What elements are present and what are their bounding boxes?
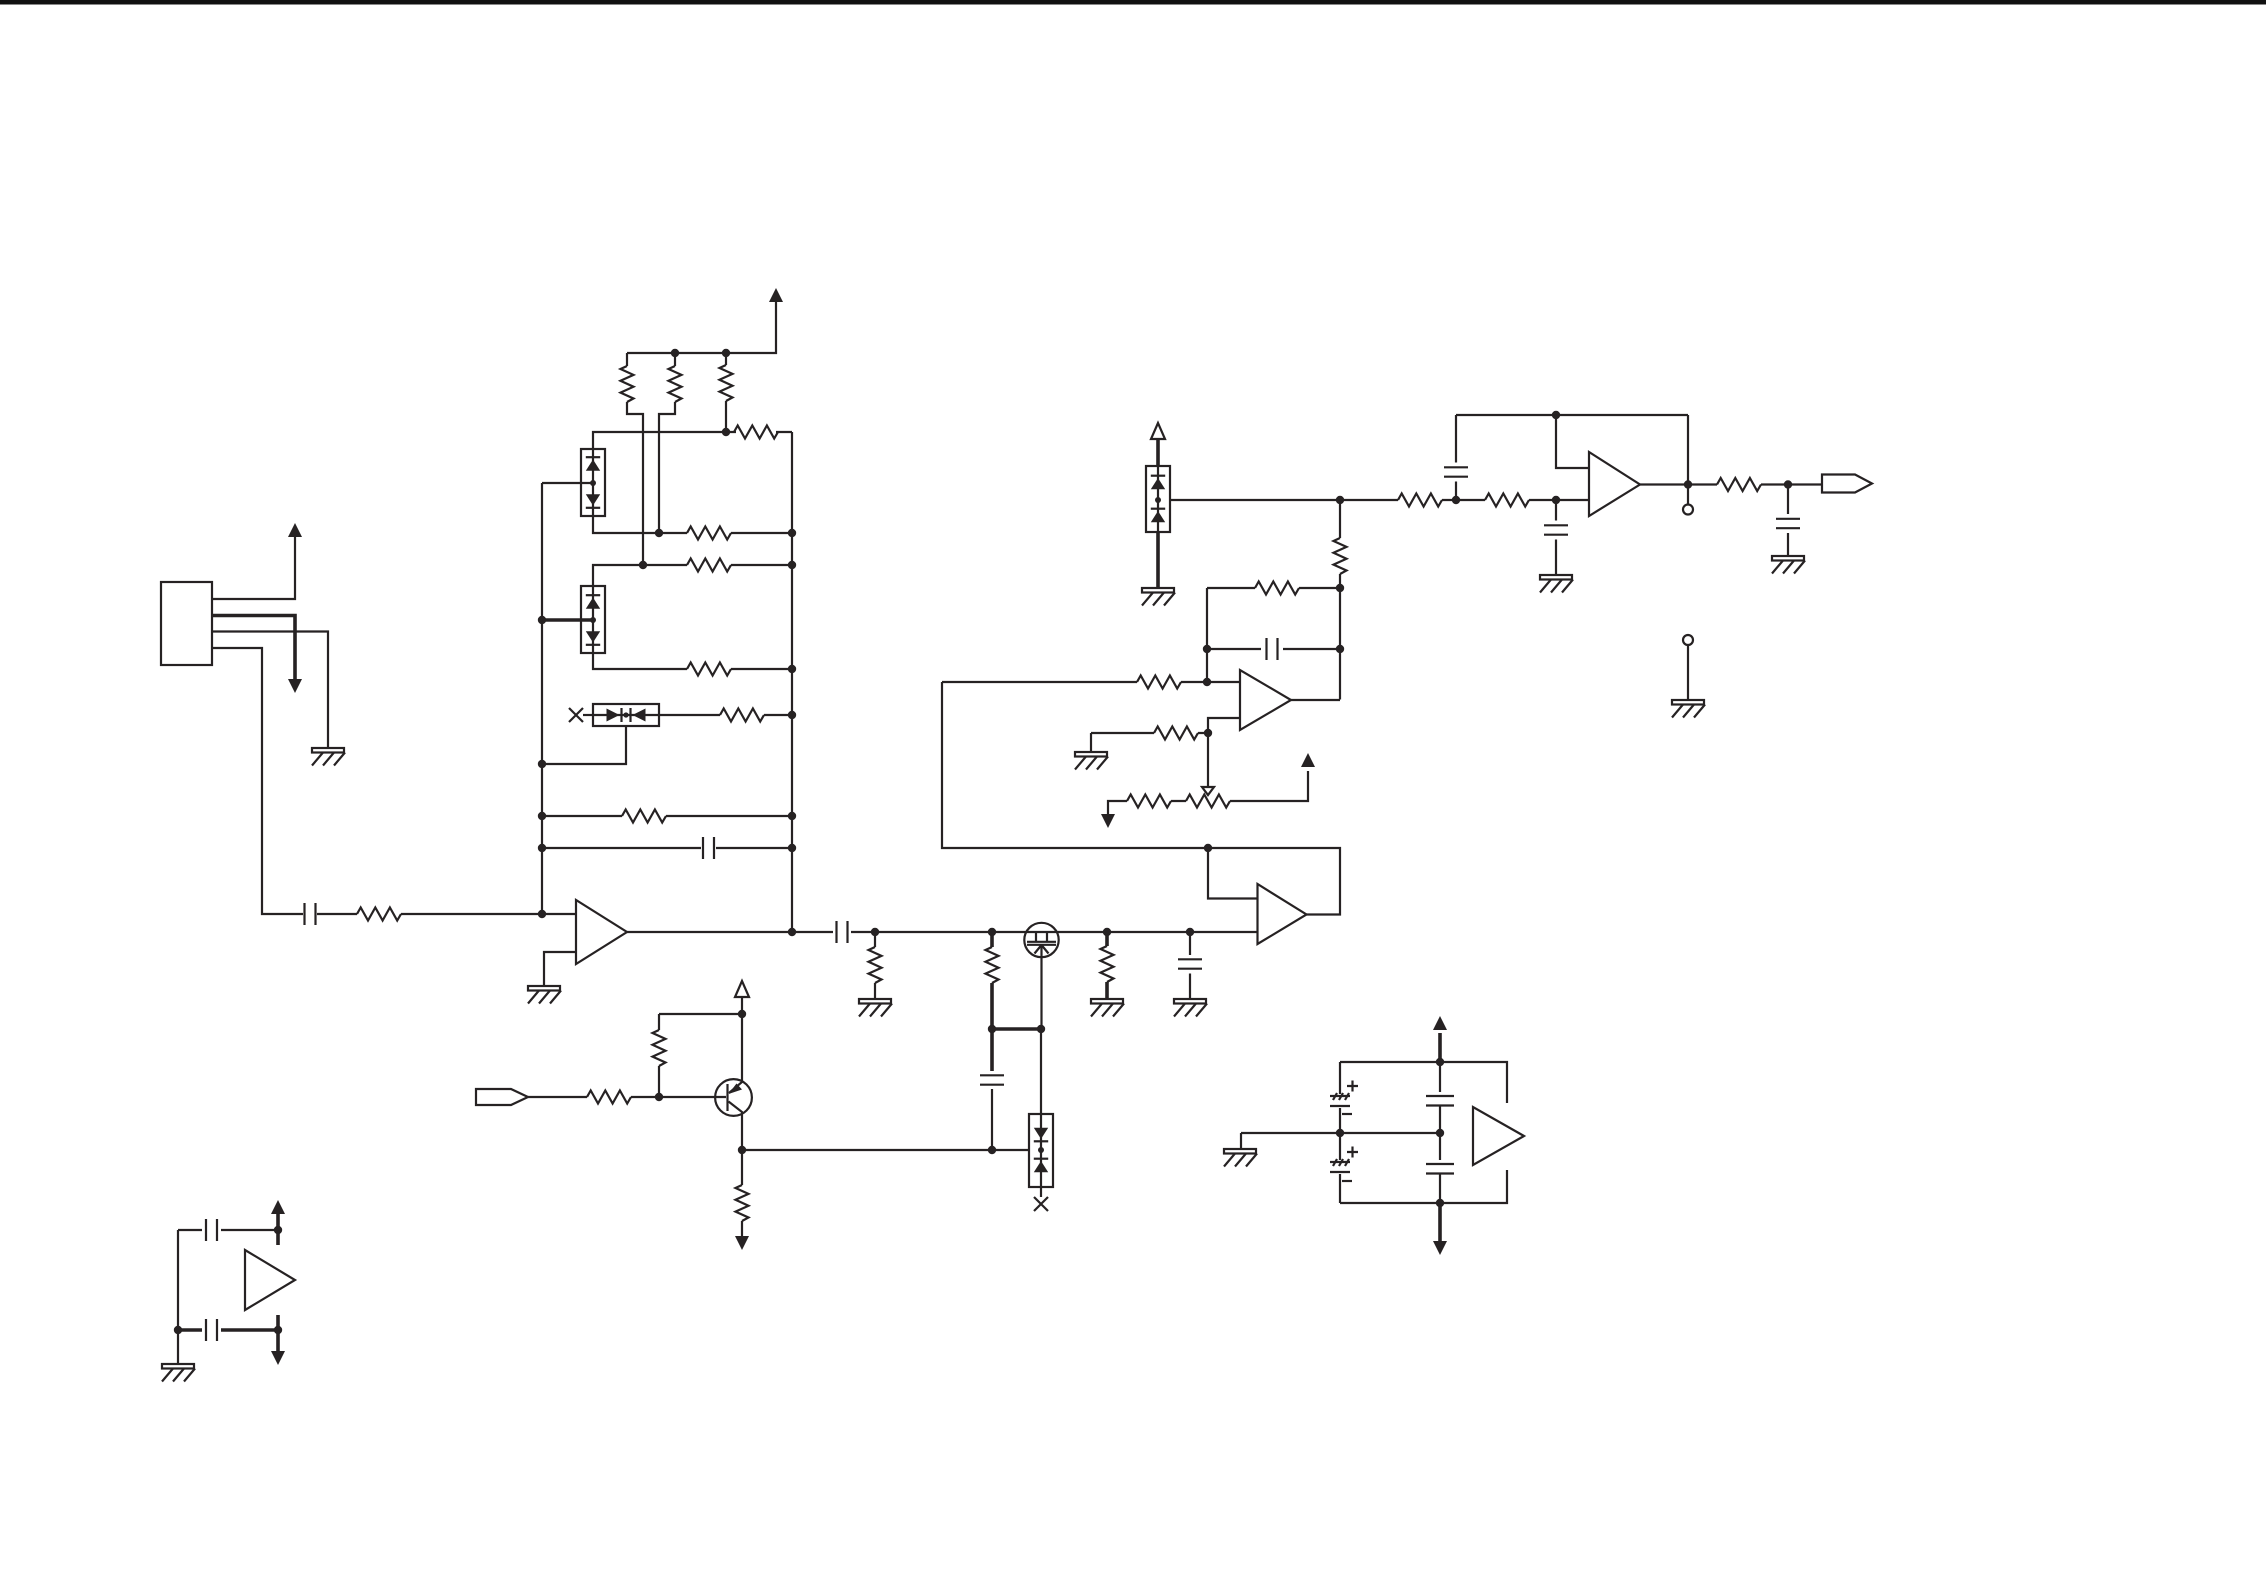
capacitor C12 (film +rail): [1426, 1062, 1454, 1133]
wire U1 -input stub: [544, 952, 576, 986]
junction dot row715 right bus: [788, 711, 796, 719]
input port flag: [476, 1089, 528, 1105]
wire R4 top stub: [725, 353, 727, 365]
diode pair D1: [581, 449, 605, 516]
capacitor C10 (electrolytic +): [1330, 1062, 1358, 1131]
junction dot U3 -input: [1203, 678, 1211, 686]
ground bypass: [162, 1364, 195, 1382]
resistor R5 (row432): [734, 426, 778, 439]
capacitor C2 (U1 feedback): [703, 837, 714, 859]
junction dot rail R4: [722, 349, 730, 357]
test point circle: [1683, 505, 1693, 515]
junction dot bus row848: [538, 844, 546, 852]
resistor R17 (U3 input): [1137, 676, 1181, 689]
wire pin2 (bold): [212, 616, 295, 683]
wire D2 mid to left bus (bold): [542, 618, 593, 622]
resistor R22 (row500 left): [1398, 494, 1442, 507]
junction dot gate node right: [1037, 1025, 1045, 1033]
junction dot row848 right bus: [788, 844, 796, 852]
wire R2 bottom jog to node B: [627, 402, 643, 565]
wire U1 output row: [627, 931, 1257, 933]
wire row814: [542, 815, 792, 817]
no-connect X mark D4: [1034, 1197, 1048, 1211]
junction dot node C4: [1186, 928, 1194, 936]
junction dot node R12: [988, 928, 996, 936]
top border bar: [0, 0, 2266, 5]
resistor R15 (base pullup): [653, 1014, 666, 1097]
wire pin1 to +V: [212, 536, 295, 599]
diode pair D2: [581, 586, 605, 653]
wire U2 output feedback loop: [942, 682, 1340, 915]
wire D5 to ground: [1156, 532, 1160, 588]
wire D4 bottom stub: [1040, 1187, 1042, 1197]
ground C9: [1772, 556, 1805, 574]
wire Q2 gate down: [1040, 945, 1042, 1029]
JFET Q2: [1024, 923, 1058, 957]
resistor R11 to ground: [869, 932, 882, 999]
junction dot row733: [1204, 729, 1212, 737]
wire row D1 top: [593, 432, 792, 449]
ground U1 -input: [528, 986, 561, 1004]
ground R13: [1091, 999, 1124, 1017]
wire bypass left vertical: [177, 1230, 179, 1364]
ground D5: [1142, 588, 1175, 606]
wire test point 2 to ground: [1687, 645, 1689, 700]
wire supply branch: [659, 1013, 742, 1015]
output port flag: [1822, 475, 1872, 493]
junction dot row588 right: [1336, 584, 1344, 592]
wire C5 bottom: [991, 1089, 993, 1150]
resistor R6 (row533): [687, 527, 731, 540]
op-amp U2 (buffer): [1258, 884, 1307, 944]
capacitor C11 (electrolytic -): [1330, 1135, 1358, 1203]
wire diode row500: [1170, 499, 1589, 501]
wire mid rail: [1241, 1132, 1440, 1134]
wire U2 -input riser: [1208, 848, 1258, 899]
wire port to R14: [528, 1096, 587, 1098]
resistor R19 (to diode row): [1334, 501, 1347, 588]
wire U3 output: [1291, 588, 1340, 700]
ground C8: [1540, 575, 1573, 593]
wire right bus: [791, 432, 793, 932]
resistor R1 input series: [357, 908, 401, 921]
wire row533: [593, 516, 792, 533]
capacitor C15 (bypass -): [206, 1319, 217, 1341]
power -V arrow pot: [1101, 814, 1115, 828]
wire U5 -input riser: [1556, 415, 1589, 468]
wire C5 top (bold): [990, 1029, 994, 1071]
wire left bus: [541, 483, 543, 914]
junction dot top rail: [1436, 1058, 1444, 1066]
capacitor C13 (film -rail): [1426, 1133, 1454, 1203]
resistor R10 (U1 feedback): [622, 810, 666, 823]
resistor R13 to ground (bold): [1101, 932, 1114, 999]
junction dot row533 right bus: [788, 529, 796, 537]
junction dot node R11: [871, 928, 879, 936]
junction dot rail415: [1552, 411, 1560, 419]
junction dot cap row left: [1203, 645, 1211, 653]
power -V arrow bypass: [271, 1315, 285, 1365]
junction dot cap row right: [1336, 645, 1344, 653]
resistor R4 (right pullup): [720, 365, 733, 401]
wire U3 -input row: [942, 681, 1240, 683]
test point stub: [1687, 485, 1689, 505]
junction dot collector node: [738, 1146, 746, 1154]
diode pair D5: [1146, 466, 1170, 532]
power -V arrow block: [1433, 1203, 1447, 1255]
power -V arrow Q1: [735, 1236, 749, 1250]
junction dot row814 right bus: [788, 812, 796, 820]
resistor R20 (U3 +input bias): [1154, 727, 1198, 740]
junction dot row565 node B: [639, 561, 647, 569]
wire bypass top row: [178, 1229, 278, 1231]
wire X to D3: [583, 714, 593, 716]
junction dot row669 right bus: [788, 665, 796, 673]
wire U5 output: [1640, 483, 1822, 485]
junction dot U5 -input node: [1552, 496, 1560, 504]
resistor R23 (row500 right): [1485, 494, 1529, 507]
ground R11: [859, 999, 892, 1017]
capacitor C9 (output to ground): [1776, 485, 1800, 557]
ground pin3: [312, 748, 345, 766]
op-amp U3: [1240, 670, 1291, 730]
power +V arrow bypass: [271, 1200, 285, 1245]
junction dot row500 R19: [1336, 496, 1344, 504]
capacitor C8 (U5 +input): [1544, 500, 1568, 575]
op-amp U1: [576, 900, 627, 964]
resistor R24 (output series): [1717, 478, 1761, 491]
junction dot mid rail center: [1436, 1129, 1444, 1137]
junction dot gate node left: [988, 1025, 996, 1033]
wire pin3: [212, 632, 328, 749]
op-amp power symbol U6: [1473, 1107, 1524, 1165]
junction dot U2 feedback: [1204, 844, 1212, 852]
resistor R14 (base series): [587, 1091, 631, 1104]
junction dot mid rail left: [1336, 1129, 1344, 1137]
wire R1 to U1 +input: [401, 913, 576, 915]
junction dot base node: [655, 1093, 663, 1101]
capacitor C3 (interstage coupling): [837, 921, 848, 943]
wire collector row to D4: [742, 1149, 1029, 1151]
resistor R21 (pot left to -V): [1108, 795, 1186, 816]
capacitor C1 input coupling: [305, 903, 316, 925]
power +V arrow block: [1433, 1016, 1447, 1062]
power +V arrow (top rail): [769, 288, 783, 302]
resistor R3 (mid pullup): [669, 366, 682, 402]
capacitor C5: [980, 1075, 1004, 1084]
resistor R8 (row669): [687, 663, 731, 676]
wire row669: [593, 653, 792, 669]
wire gate node (bold): [992, 1027, 1041, 1031]
wire U3 feedback vertical: [1206, 588, 1208, 682]
wire +V rail top: [627, 302, 776, 353]
ground test point 2: [1672, 700, 1705, 718]
junction dot row565 right bus: [788, 561, 796, 569]
wire U5 output feedback: [1687, 415, 1689, 485]
resistor R2 (left pullup): [621, 366, 634, 402]
capacitor C14 (bypass +): [206, 1219, 217, 1241]
junction dot bus row764: [538, 760, 546, 768]
resistor R12 (bold, to gate node): [986, 932, 999, 1029]
resistor R7 (row565): [687, 559, 731, 572]
junction dot bottom rail: [1436, 1199, 1444, 1207]
wire pin4 to input node: [212, 648, 303, 914]
junction dot bus row814: [538, 812, 546, 820]
diode pair D3 (horizontal): [593, 704, 659, 726]
wire R2 top stub: [626, 353, 628, 366]
connector J1: [161, 582, 212, 665]
no-connect X mark: [569, 708, 583, 722]
wire D3 bottom to bus: [542, 726, 626, 764]
potentiometer RV1: [1186, 787, 1230, 808]
junction dot output node: [1784, 480, 1792, 488]
junction dot row500 C7: [1452, 496, 1460, 504]
wire wiper riser: [1207, 733, 1209, 787]
capacitor C7 (U5 feedback): [1444, 415, 1468, 500]
wire row588: [1207, 587, 1340, 589]
wire U3 +input stub: [1208, 718, 1240, 733]
wire U5 feedback rail: [1456, 414, 1688, 416]
resistor R16 (collector to -V): [736, 1150, 749, 1237]
junction dot U5 output: [1684, 480, 1692, 488]
wire pot right to +V: [1230, 771, 1308, 801]
junction dot rail R3: [671, 349, 679, 357]
wire Q2 gate to D4: [1040, 1029, 1042, 1114]
wire R4 bottom: [725, 401, 727, 432]
wire R14 to Q1 base: [631, 1096, 726, 1098]
wire R3 top stub: [674, 353, 676, 366]
wire D3 right to R9: [659, 714, 792, 716]
wire power block top rail: [1340, 1062, 1507, 1103]
ground C4: [1174, 999, 1207, 1017]
junction dot row432: [722, 428, 730, 436]
power +V arrow pot: [1301, 753, 1315, 767]
power +V arrow (pin1): [288, 523, 302, 537]
wire cap row649: [1207, 648, 1340, 650]
wire bypass bottom row: [178, 1328, 278, 1332]
junction dot row533 node A: [655, 529, 663, 537]
junction dot output right bus: [788, 928, 796, 936]
junction dot node R13: [1103, 928, 1111, 936]
wire R3 bottom jog to node A: [659, 402, 675, 533]
junction dot bypass left: [174, 1326, 182, 1334]
wire row848: [542, 847, 792, 849]
ground power block: [1224, 1133, 1257, 1167]
power +V hollow arrow Q1: [735, 981, 749, 1014]
resistor R18 (U3 feedback): [1255, 582, 1299, 595]
junction dot emitter supply: [738, 1010, 746, 1018]
junction dot collector row C5: [988, 1146, 996, 1154]
capacitor C6 (U3 feedback): [1267, 638, 1278, 660]
op-amp power symbol U7: [245, 1250, 295, 1310]
junction dot U1 input node: [538, 910, 546, 918]
op-amp U5: [1589, 452, 1640, 516]
wire row565: [593, 565, 792, 586]
test point 2 circle: [1683, 635, 1693, 645]
junction dot bus D2: [538, 616, 546, 624]
wire D1 mid to left bus: [542, 482, 593, 484]
transistor Q1 (PNP): [715, 1014, 752, 1150]
ground U3 +input: [1075, 733, 1108, 770]
wire row733: [1091, 732, 1208, 734]
resistor R9 (row715): [720, 709, 764, 722]
junction dot bypass bottom: [274, 1326, 282, 1334]
power -V arrow (pin2): [288, 679, 302, 693]
power +V hollow arrow D5: [1151, 423, 1165, 466]
capacitor C4 to ground: [1178, 932, 1202, 999]
wire C1 to R1: [317, 913, 357, 915]
diode pair D4: [1029, 1114, 1053, 1187]
wire power block bottom rail: [1340, 1170, 1507, 1203]
junction dot bypass top: [274, 1226, 282, 1234]
